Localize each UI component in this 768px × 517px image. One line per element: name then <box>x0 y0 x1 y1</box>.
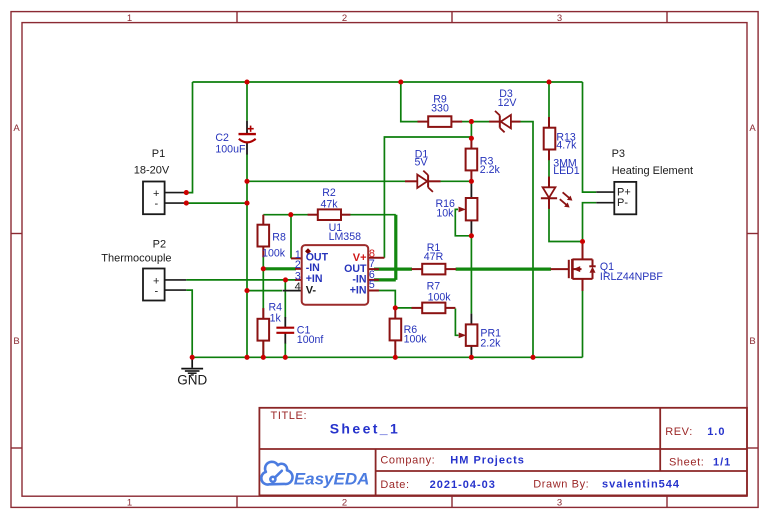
svg-text:100nf: 100nf <box>297 334 324 346</box>
svg-text:2: 2 <box>342 498 347 509</box>
svg-text:3: 3 <box>557 498 562 509</box>
wire pin5 to R6 node <box>375 291 396 308</box>
svg-text:100k: 100k <box>404 334 428 346</box>
node rail R9 <box>398 79 403 84</box>
wire out row left thick <box>374 268 412 271</box>
wire out row right thick <box>456 268 551 271</box>
wire LED bottom to Q1 node <box>549 208 583 241</box>
svg-text:P-: P- <box>617 197 628 209</box>
svg-text:2: 2 <box>295 259 301 271</box>
resistor R8 100k <box>258 225 270 247</box>
R2 stubs <box>308 214 318 216</box>
svg-text:TITLE:: TITLE: <box>271 410 308 422</box>
node rail PR1 <box>469 355 474 360</box>
svg-text:330: 330 <box>431 103 449 115</box>
svg-text:2.2k: 2.2k <box>480 337 501 349</box>
svg-text:-: - <box>155 285 159 297</box>
svg-text:A: A <box>13 123 20 134</box>
svg-text:4.7k: 4.7k <box>556 139 577 151</box>
svg-text:1k: 1k <box>270 313 282 325</box>
resistor R13 4.7k <box>544 128 556 150</box>
wire feedback vertical thick <box>394 215 397 280</box>
wire V+ line pin8 <box>384 137 471 258</box>
wire R6 bottom gap <box>394 351 396 358</box>
svg-text:2021-04-03: 2021-04-03 <box>430 479 496 491</box>
D3 cathode wire <box>489 121 500 123</box>
svg-text:5V: 5V <box>415 157 429 169</box>
svg-text:IRLZ44NPBF: IRLZ44NPBF <box>600 271 664 283</box>
svg-text:1: 1 <box>127 13 132 24</box>
capacitor C1 100nf <box>276 328 294 333</box>
svg-text:18-20V: 18-20V <box>134 164 170 176</box>
node rail gnd <box>190 355 195 360</box>
R7 stubs <box>412 307 423 309</box>
svg-text:100uF: 100uF <box>215 143 246 155</box>
connector P3 <box>596 192 614 203</box>
wire C1 bottom <box>284 343 286 357</box>
svg-text:12V: 12V <box>498 97 518 109</box>
D1 anode wire <box>405 180 417 182</box>
node R3 bottom <box>469 179 474 184</box>
node C2 bottom <box>244 179 249 184</box>
R1 stubs <box>412 268 423 270</box>
wire R2 right feedback <box>350 214 396 216</box>
node R2 left <box>288 212 293 217</box>
svg-text:Drawn By:: Drawn By: <box>533 479 589 491</box>
zener diode D1 5V <box>417 171 433 192</box>
svg-text:B: B <box>749 336 755 347</box>
node P1- gnd <box>244 201 249 206</box>
wire R16 bottom to PR1 <box>470 236 472 314</box>
U1 pin names <box>306 251 367 296</box>
wire R8 node row <box>263 214 308 216</box>
svg-text:Company:: Company: <box>380 455 435 467</box>
C2 black stubs <box>246 121 248 134</box>
wire P1+ riser <box>186 82 192 193</box>
svg-text:svalentin544: svalentin544 <box>602 479 680 491</box>
node R9 D3 <box>469 119 474 124</box>
wire R7 left <box>395 307 412 309</box>
EasyEDA logo <box>261 462 292 485</box>
wire D1 row left <box>247 180 405 182</box>
potentiometer PR1 2.2k <box>466 324 478 346</box>
zener diode D3 12V <box>495 111 511 132</box>
wire pin2 node down to R4 <box>262 269 264 358</box>
node V+ R3 <box>469 136 474 141</box>
wire R9 branch from rail <box>401 82 418 122</box>
svg-text:2.2k: 2.2k <box>480 164 501 176</box>
ground symbol <box>181 357 203 375</box>
wire R13 top <box>548 82 550 118</box>
title block <box>259 408 747 496</box>
svg-text:+IN: +IN <box>350 285 367 297</box>
mosfet Q1 IRLZ44NPBF <box>569 259 596 279</box>
wire R13 to LED <box>548 160 550 187</box>
wire bottom rail <box>192 356 582 358</box>
svg-text:1: 1 <box>127 498 132 509</box>
svg-text:Thermocouple: Thermocouple <box>101 252 171 264</box>
resistor R4 1k <box>258 319 270 341</box>
wire pin2 thick <box>263 267 296 270</box>
resistor R6 100k <box>390 319 402 341</box>
wire C2 bottom / gnd column <box>246 154 248 357</box>
resistor R2 47k <box>318 209 341 220</box>
svg-text:47k: 47k <box>320 198 338 210</box>
wire pin4 V- to gnd column <box>247 290 282 292</box>
wire rail to P+ <box>583 82 597 192</box>
R3 stubs <box>470 140 472 149</box>
D1 cathode wire <box>428 180 440 182</box>
wire P2- down <box>186 290 192 357</box>
svg-text:Date:: Date: <box>380 479 409 491</box>
svg-text:Sheet_1: Sheet_1 <box>330 421 401 437</box>
wire R9 right to node <box>462 121 472 123</box>
resistor R9 330 <box>428 116 451 127</box>
wire pin6 thick <box>374 278 396 281</box>
wire R16 wiper <box>455 209 471 235</box>
svg-text:V-: V- <box>306 285 317 297</box>
wire P2+ to pin3 <box>186 279 296 281</box>
svg-text:1.0: 1.0 <box>707 426 725 438</box>
D3 anode wire <box>511 121 521 123</box>
C1 black stubs <box>284 317 286 328</box>
Q1 source stub <box>582 279 584 291</box>
Q1 gate wire <box>551 268 569 270</box>
svg-text:C2: C2 <box>215 132 229 144</box>
svg-text:10k: 10k <box>436 208 454 220</box>
node pin5 R6 R7 <box>393 305 398 310</box>
wire top rail <box>193 81 583 83</box>
R9 stubs <box>418 121 429 123</box>
svg-text:Sheet:: Sheet: <box>669 457 704 469</box>
connector P2 <box>165 280 187 290</box>
PR1 black stubs <box>470 314 472 325</box>
svg-text:R8: R8 <box>272 231 286 243</box>
R16 black stubs <box>470 181 472 198</box>
node P1+ <box>184 190 189 195</box>
svg-text:HM Projects: HM Projects <box>450 455 525 467</box>
R13 stubs <box>548 117 550 128</box>
svg-text:A: A <box>749 123 756 134</box>
potentiometer R16 10k <box>466 198 478 220</box>
LED stubs <box>548 177 550 188</box>
wire P1- to gnd column <box>186 202 247 204</box>
wire Q1 source to bottom rail <box>582 290 584 357</box>
node LED Q1 <box>580 239 585 244</box>
svg-text:4: 4 <box>295 281 301 293</box>
wire R7 right to PR1 wiper <box>455 309 458 336</box>
wire R8 bottom to pin2 node <box>262 257 264 269</box>
svg-text:47R: 47R <box>424 251 444 263</box>
node rail R4 <box>261 355 266 360</box>
R4 stubs <box>262 308 264 319</box>
node P1- <box>184 201 189 206</box>
capacitor C2 100uF <box>239 126 256 143</box>
R6 stubs <box>394 308 396 319</box>
svg-text:P3: P3 <box>612 148 625 160</box>
svg-text:2: 2 <box>342 13 347 24</box>
node pin2 <box>261 266 266 271</box>
node rail R6 <box>393 355 398 360</box>
node pin3 <box>283 277 288 282</box>
U1 pin stubs <box>291 257 302 259</box>
svg-text:+IN: +IN <box>306 273 323 285</box>
svg-text:LED1: LED1 <box>553 165 580 177</box>
wire D3 cathode stub <box>471 121 489 123</box>
connector P1 <box>165 193 187 204</box>
wire D1 cathode to R3 node <box>440 180 471 182</box>
svg-text:Heating Element: Heating Element <box>612 165 693 177</box>
resistor R3 2.2k <box>466 149 478 171</box>
svg-text:B: B <box>13 336 19 347</box>
svg-text:1/1: 1/1 <box>713 457 731 469</box>
node rail R13 <box>546 79 551 84</box>
node rail C1 <box>283 355 288 360</box>
wire node R9 down to R3 <box>470 122 472 141</box>
svg-text:LM358: LM358 <box>329 231 361 243</box>
svg-text:GND: GND <box>177 373 207 388</box>
svg-text:100k: 100k <box>262 247 286 259</box>
svg-text:3: 3 <box>557 13 562 24</box>
svg-text:REV:: REV: <box>665 426 693 438</box>
svg-text:EasyEDA: EasyEDA <box>294 469 370 488</box>
node rail D3col <box>530 355 535 360</box>
wire P- down to Q1 node <box>583 203 597 242</box>
node R16 bottom <box>469 233 474 238</box>
svg-text:P1: P1 <box>152 148 165 160</box>
resistor R7 100k <box>422 303 445 314</box>
wire R4 bottom gap <box>262 351 264 358</box>
svg-text:-: - <box>155 198 159 210</box>
wire D3 anode to right column <box>520 122 533 358</box>
R8 stubs <box>262 215 264 225</box>
svg-text:100k: 100k <box>428 291 452 303</box>
node rail gndcol <box>244 355 249 360</box>
wire C2 top <box>246 82 248 121</box>
resistor R1 47R <box>422 264 445 275</box>
node pin4 <box>244 288 249 293</box>
wire C1 top <box>284 280 286 318</box>
node rail C2 <box>244 79 249 84</box>
op-amp U1 LM358 <box>302 245 369 305</box>
svg-text:P2: P2 <box>153 239 166 251</box>
LED LED1 <box>541 187 569 205</box>
Q1 drain stub <box>582 242 584 260</box>
svg-text:5: 5 <box>369 279 375 291</box>
wire pin1 riser <box>290 215 292 259</box>
pin4 V- black stub <box>283 290 302 292</box>
